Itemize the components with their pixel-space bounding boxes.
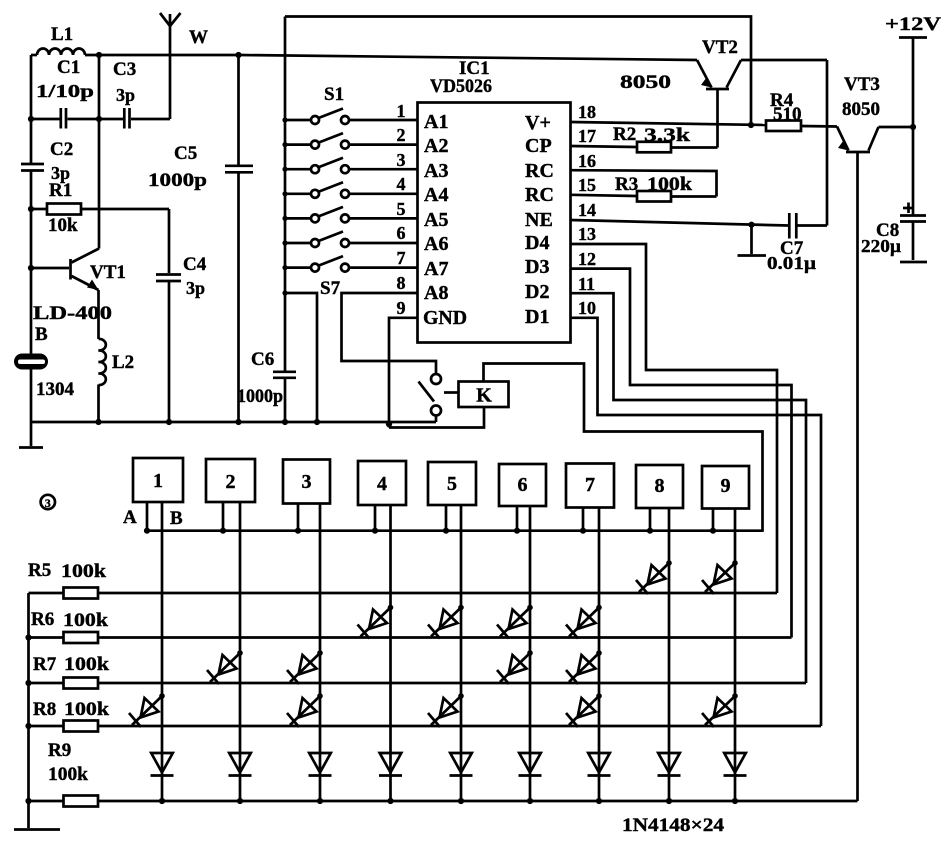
svg-text:1N4148×24: 1N4148×24 (622, 815, 725, 836)
wire: lower return y=427.5 to K (389, 407, 484, 428)
diode D row8 col3 (287, 693, 323, 727)
svg-text:C5: C5 (174, 143, 197, 164)
svg-text:A4: A4 (424, 184, 448, 206)
svg-text:10: 10 (578, 298, 596, 318)
svg-text:+12V: +12V (885, 14, 941, 35)
node at L1 right / tank top (96, 52, 102, 58)
svg-text:6: 6 (518, 474, 528, 496)
svg-text:R2: R2 (613, 124, 636, 145)
capacitor C6 (in rail) (237, 349, 296, 422)
svg-text:A8: A8 (424, 282, 448, 304)
crystal B LD-400 1304 (14, 303, 112, 400)
IC1 right pin labels (525, 112, 554, 328)
wire: pin12 D3 route to row R6 (571, 269, 792, 638)
wire: left vertical x=99 (VT1 collector riser) (98, 55, 101, 249)
figure number 3 circled (41, 495, 55, 510)
svg-text:A: A (123, 507, 137, 528)
svg-text:18: 18 (578, 102, 596, 122)
node VT1 base on rail (28, 265, 34, 271)
button box 5 (428, 462, 476, 801)
button box 8 (636, 465, 683, 801)
diode D row7 col3 (287, 650, 323, 684)
IC1 left pin labels (423, 111, 467, 329)
svg-text:100k: 100k (48, 764, 88, 785)
wire: VT2 collector drop to C7 line (826, 60, 829, 226)
wire: row R6 (98, 636, 792, 639)
svg-text:1: 1 (397, 101, 406, 121)
svg-text:10k: 10k (48, 215, 78, 236)
+12V supply (885, 14, 941, 215)
button box 2 (206, 459, 255, 801)
wire: row R5 (98, 592, 777, 595)
node dots on bottom bus (95, 419, 101, 425)
svg-text:A5: A5 (424, 209, 448, 231)
wire: row R8 (98, 725, 821, 728)
node top-loop to V+ line (748, 122, 754, 128)
diode D row6 col4 (358, 605, 394, 639)
wire: top rail y=55 (31, 54, 37, 57)
switch S2 (282, 133, 417, 149)
svg-text:C6: C6 (251, 349, 274, 370)
IC1 right pin numbers 18-10 (578, 102, 596, 318)
diode D row5 col8 (636, 560, 672, 594)
svg-text:C2: C2 (50, 139, 73, 160)
svg-text:17: 17 (578, 126, 596, 146)
svg-text:D4: D4 (525, 232, 549, 254)
op-amp/encoder IC1 VD5026 body (418, 58, 571, 343)
svg-text:11: 11 (578, 274, 595, 294)
resistor R1 (31, 180, 169, 236)
node C1 left (28, 116, 34, 122)
ground (C7 node) (738, 225, 767, 256)
svg-text:VD5026: VD5026 (430, 76, 492, 97)
wire: left rail mid segment (30, 171, 33, 355)
diode D bottom col1 (151, 753, 174, 776)
svg-text:2: 2 (397, 125, 406, 145)
diode D bottom col8 (658, 753, 681, 776)
node C1/C3 junction (96, 116, 102, 122)
svg-text:16: 16 (578, 151, 596, 171)
wire: antenna drop to C3 (169, 55, 172, 119)
diode D row7 col7 (566, 650, 602, 684)
svg-text:3: 3 (397, 150, 406, 170)
svg-text:3: 3 (302, 471, 312, 493)
button box 1 (133, 458, 183, 801)
capacitor C3 (99, 59, 170, 129)
wire: pin15 RC line (571, 195, 638, 196)
svg-text:220µ: 220µ (861, 236, 902, 256)
diode D row7 col6 (497, 650, 533, 684)
wire: left matrix rail (27, 593, 30, 801)
diode D row6 col6 (497, 605, 533, 639)
diode D bottom col9 (724, 753, 747, 776)
svg-text:1000p: 1000p (237, 386, 283, 407)
wire: VT3 emitter long drop to bottom bus (856, 152, 859, 801)
button box 7 (566, 464, 614, 802)
button box 6 (499, 464, 546, 801)
svg-text:5: 5 (447, 473, 457, 495)
transistor VT2 (620, 37, 827, 148)
wire: main bottom bus y=422 (31, 421, 436, 424)
svg-text:A3: A3 (424, 160, 448, 182)
wire: row R7 (98, 682, 806, 685)
svg-text:9: 9 (721, 475, 731, 497)
node at C5 top (235, 52, 241, 58)
transistor VT3 (837, 74, 913, 152)
diode D bottom col4 (379, 753, 402, 776)
svg-text:6: 6 (397, 223, 406, 243)
node A / node B labels (123, 507, 183, 529)
switch S6 (282, 232, 417, 248)
diode D row6 col5 (428, 605, 464, 639)
switch S5 (282, 207, 417, 223)
svg-text:R8: R8 (33, 699, 56, 720)
node on NE line (748, 222, 754, 228)
svg-text:R1: R1 (49, 180, 72, 201)
svg-text:CP: CP (525, 135, 552, 157)
svg-text:B: B (170, 508, 183, 529)
diode D bottom col5 (450, 753, 473, 776)
svg-text:K: K (476, 385, 492, 407)
svg-text:1/10p: 1/10p (36, 81, 94, 101)
svg-text:4: 4 (397, 174, 406, 194)
wire: left rail upper segment (30, 55, 33, 163)
wire: pin11 D2 route to row R7 (571, 293, 807, 683)
diode D row8 col7 (566, 693, 602, 727)
svg-text:8050: 8050 (842, 99, 880, 120)
svg-text:7: 7 (585, 474, 595, 496)
capacitor C5 (148, 55, 253, 422)
resistor R7 (29, 654, 110, 689)
svg-text:D3: D3 (525, 256, 549, 278)
svg-text:7: 7 (397, 248, 406, 268)
svg-text:S1: S1 (324, 84, 344, 105)
svg-text:R6: R6 (31, 609, 54, 630)
diode D bottom col2 (229, 753, 252, 776)
wire: pin18 V+ line (571, 122, 767, 125)
svg-text:5: 5 (397, 199, 406, 219)
svg-text:A6: A6 (424, 233, 448, 255)
svg-text:L2: L2 (112, 352, 134, 373)
capacitor C4 (156, 254, 207, 422)
button box 3 (283, 460, 330, 802)
resistor R9 (29, 740, 99, 807)
svg-text:W: W (189, 27, 208, 48)
diode D row8 col9 (702, 693, 738, 727)
ground (matrix rail) (14, 801, 60, 830)
wire: bottom matrix bus y=801 (98, 800, 858, 803)
svg-text:VT2: VT2 (702, 37, 738, 58)
svg-text:VT1: VT1 (90, 262, 126, 283)
svg-text:C1: C1 (57, 57, 80, 78)
wire: pin16 RC line (571, 170, 717, 196)
svg-text:R3: R3 (615, 174, 638, 195)
resistor R6 (29, 609, 109, 643)
svg-text:S7: S7 (320, 278, 341, 299)
svg-text:A2: A2 (424, 135, 448, 157)
svg-text:C4: C4 (183, 254, 207, 275)
resistor R5 (28, 560, 106, 599)
wire: pin10 D1 route to row R8 (571, 318, 822, 726)
relay K (459, 382, 509, 408)
wire: rail to crystal and crystal to bus (30, 370, 33, 423)
svg-text:C3: C3 (113, 59, 136, 80)
svg-text:100k: 100k (647, 174, 692, 195)
diode D row5 col9 (702, 560, 738, 594)
ground (oscillator) (19, 422, 43, 448)
svg-text:R5: R5 (28, 560, 51, 581)
svg-text:RC: RC (525, 184, 554, 206)
svg-text:3p: 3p (116, 85, 135, 105)
wire: switch common rail x=285 (284, 17, 287, 371)
svg-text:15: 15 (578, 175, 596, 195)
svg-text:3: 3 (45, 496, 51, 510)
wire: R1 right drop to C4 (168, 209, 171, 273)
wire: pin8 A8 path to key switch (342, 293, 437, 374)
svg-text:4: 4 (377, 473, 387, 495)
nodes on A bus (144, 528, 150, 534)
svg-text:100k: 100k (61, 561, 106, 582)
svg-text:8050: 8050 (620, 72, 671, 93)
inductor L1 (37, 24, 85, 55)
diode D bottom col6 (519, 753, 542, 776)
svg-text:100k: 100k (63, 610, 108, 631)
diode D row8 col5 (428, 693, 464, 727)
svg-text:3.3k: 3.3k (644, 125, 691, 146)
capacitor C2 (in left rail) (21, 139, 73, 183)
resistor R2 (613, 124, 718, 152)
antenna W (160, 13, 208, 55)
switch S1 (282, 84, 417, 124)
svg-text:V+: V+ (525, 112, 551, 134)
svg-text:1304: 1304 (36, 379, 75, 400)
switch S4 (282, 182, 417, 198)
wire: A common bus y=530.7 (147, 529, 763, 532)
svg-text:9: 9 (397, 298, 406, 318)
resistor R4 (766, 90, 837, 131)
svg-text:8: 8 (655, 475, 665, 497)
node R1 left (28, 206, 34, 212)
node VT3 collector at +12V rail (910, 124, 916, 130)
svg-text:1: 1 (153, 470, 163, 492)
transistor VT1 (31, 249, 126, 291)
wire: pin17 CP line (571, 146, 638, 147)
svg-text:8: 8 (397, 273, 406, 293)
svg-text:GND: GND (423, 307, 467, 329)
switch S3 (282, 158, 417, 174)
svg-text:L1: L1 (51, 24, 73, 45)
diode D row6 col7 (566, 605, 602, 639)
key switch contact (to K) (419, 374, 459, 422)
nodes on bottom bus (159, 798, 165, 804)
switch S7 (282, 256, 417, 299)
svg-text:13: 13 (578, 224, 596, 244)
capacitor C8 electrolytic (861, 203, 927, 263)
capacitor C1 (31, 57, 99, 129)
svg-text:A7: A7 (424, 258, 448, 280)
diode D bottom col3 (309, 753, 332, 776)
svg-text:A1: A1 (424, 111, 448, 133)
wire: pin9 GND path (389, 318, 418, 428)
IC1 left pin numbers 1-9 (397, 101, 406, 318)
svg-text:100k: 100k (64, 699, 109, 720)
resistor R8 (29, 699, 110, 732)
svg-text:510: 510 (773, 104, 802, 125)
button box 9 (702, 466, 749, 801)
wire: pin14 NE line to C7 (571, 220, 789, 226)
svg-text:NE: NE (525, 209, 553, 231)
svg-text:D1: D1 (525, 306, 549, 328)
diode D row8 col1 (129, 693, 165, 727)
svg-text:RC: RC (525, 160, 554, 182)
wire: K top path to A-bus riser (484, 364, 763, 532)
svg-text:D2: D2 (525, 281, 549, 303)
svg-text:12: 12 (578, 249, 596, 269)
svg-text:1000p: 1000p (148, 170, 207, 191)
resistor R3 (615, 174, 717, 202)
svg-text:2: 2 (226, 471, 236, 493)
capacitor C7 (767, 213, 827, 273)
svg-text:14: 14 (578, 200, 596, 220)
button box 4 (358, 461, 406, 801)
svg-text:VT3: VT3 (844, 74, 880, 95)
svg-text:LD-400: LD-400 (33, 303, 112, 324)
wire: VT1 emitter drop (97, 290, 100, 339)
wire: top loop y=16.5 (285, 17, 751, 126)
svg-text:R7: R7 (33, 654, 57, 675)
diode D bottom col7 (588, 753, 611, 776)
svg-text:100k: 100k (64, 654, 109, 675)
svg-text:3p: 3p (186, 278, 205, 298)
svg-text:R9: R9 (48, 740, 71, 761)
svg-text:B: B (35, 324, 48, 345)
inductor L2 (99, 339, 135, 422)
diode D row7 col2 (207, 650, 243, 684)
wire: rail stub to bus at x=317 (285, 293, 317, 422)
svg-text:0.01µ: 0.01µ (767, 253, 817, 273)
wire: pin13 D4 route to row R5 (571, 244, 778, 593)
